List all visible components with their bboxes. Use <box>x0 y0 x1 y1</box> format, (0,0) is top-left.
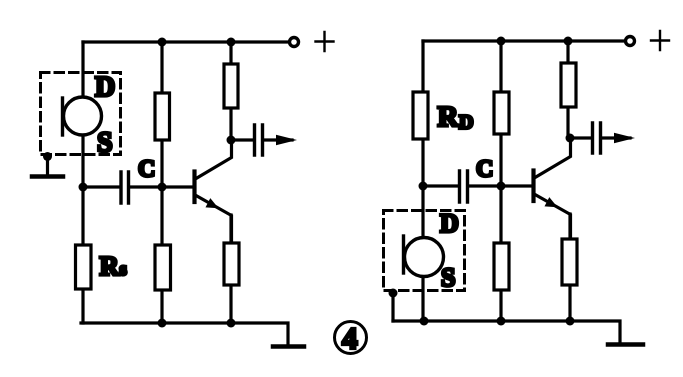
wire: right circuit top supply rail <box>423 39 624 42</box>
wire: mic case down to ground <box>46 157 49 175</box>
wire: left collector branch upper <box>229 42 232 140</box>
Q2 collector lead <box>535 139 571 178</box>
electret microphone shield box (dashed, right) <box>384 211 465 291</box>
ground (left circuit) <box>273 344 304 349</box>
junction: mic case (right) <box>389 289 398 298</box>
wire: supply rail down to mic drain <box>81 42 84 187</box>
junction dot bottom (divider) <box>158 319 167 328</box>
mic FET circle (left) <box>64 97 102 135</box>
svg-text:RD: RD <box>438 101 474 134</box>
wire: node to capacitor C (left) <box>83 185 119 188</box>
mic gate electrode bar (right) <box>402 236 405 273</box>
svg-text:C: C <box>138 157 155 183</box>
Q1 collector lead <box>196 141 232 179</box>
svg-text:D: D <box>440 209 459 238</box>
wire: emitter branch lower (left) <box>229 215 232 323</box>
output arrow (right) <box>614 133 635 144</box>
junction dot on right rail (collector) <box>564 37 573 46</box>
wire: node to transistor base (left) <box>162 185 193 188</box>
wire: node to capacitor C (right) <box>423 184 458 187</box>
junction dot bottom (divider, right) <box>497 317 506 326</box>
svg-text:S: S <box>441 263 455 292</box>
resistor: emitter (left) <box>224 243 239 285</box>
wire: node to transistor base (right) <box>501 184 532 187</box>
mic gate electrode bar (left) <box>61 98 64 135</box>
node: divider/base node (right) <box>497 182 506 191</box>
capacitor C (left coupling cap) <box>121 172 129 203</box>
capacitor C (right coupling cap) <box>460 171 468 202</box>
wire: right divider branch vertical <box>499 41 502 321</box>
wire: mic case down to bottom rail (right) <box>391 293 394 321</box>
wire: right RD branch vertical <box>421 41 424 186</box>
resistor: divider lower (right) <box>494 243 509 290</box>
wire: output lead with arrow (right) <box>602 136 630 139</box>
label: + polarity right <box>651 31 669 50</box>
transistor Q2 base bar <box>531 171 535 202</box>
wire: right circuit bottom rail to ground <box>393 321 620 342</box>
resistor: divider upper (right) <box>494 92 509 134</box>
label: + polarity left <box>316 32 334 51</box>
svg-text:4: 4 <box>342 321 358 356</box>
junction dot bottom (emitter) <box>227 319 236 328</box>
Q2 emitter arrow <box>545 197 558 207</box>
wire: emitter branch lower (right) <box>568 214 571 321</box>
node: divider/base node (left) <box>158 183 167 192</box>
resistor: collector load (right) <box>561 63 576 107</box>
wire: node down to mic drain (right) <box>421 186 424 321</box>
junction dot on rail (collector branch) <box>227 38 236 47</box>
svg-text:D: D <box>95 72 115 103</box>
wire: left circuit bottom rail to ground <box>81 323 288 344</box>
resistor: collector load (left) <box>224 64 238 108</box>
node: collector output node (right) <box>566 134 575 143</box>
node: collector output node (left) <box>227 136 236 145</box>
terminal: supply + output circle <box>290 38 299 47</box>
ground (mic case, left) <box>32 174 63 179</box>
output arrow (left) <box>276 135 297 146</box>
svg-text:Rs: Rs <box>100 251 127 281</box>
wire: capacitor to divider node (left) <box>130 185 162 188</box>
resistor Rs <box>76 245 92 289</box>
wire: right collector branch upper <box>566 41 569 138</box>
junction dot bottom (emitter, right) <box>566 317 575 326</box>
Q1 emitter arrow <box>206 198 219 208</box>
transistor Q1 base bar <box>192 172 196 203</box>
resistor: emitter (right) <box>562 239 577 285</box>
figure number circle 4 <box>335 322 367 354</box>
node: gate bias node (left) <box>79 183 88 192</box>
resistor: divider lower (left) <box>155 245 171 290</box>
svg-text:S: S <box>97 128 113 159</box>
ground (right circuit) <box>608 342 643 347</box>
wire: collector node to output cap (right) <box>570 136 591 139</box>
electret microphone shield box (dashed, left) <box>41 73 121 155</box>
wire: left divider branch vertical <box>160 42 163 323</box>
junction dot on rail (divider) <box>158 38 167 47</box>
output capacitor (left) <box>255 125 263 155</box>
wire: collector node to output cap (left) <box>231 138 253 141</box>
wire: left circuit top supply rail <box>83 40 288 43</box>
Q2 emitter lead <box>535 195 571 244</box>
output capacitor (right) <box>593 123 601 153</box>
Q1 emitter lead <box>196 196 232 245</box>
junction: mic case to ground (left) <box>43 152 52 161</box>
terminal: supply + output circle (right) <box>626 37 635 46</box>
wire: Rs branch vertical <box>81 187 84 323</box>
resistor RD <box>413 92 428 139</box>
junction dot on right rail (divider) <box>497 37 506 46</box>
svg-text:C: C <box>476 157 493 183</box>
resistor: divider upper (left) <box>155 93 170 140</box>
wire: capacitor to divider node (right) <box>469 184 501 187</box>
mic FET circle (right) <box>405 238 444 277</box>
wire: output lead with arrow (left) <box>264 138 292 141</box>
junction dot bottom (mic, right) <box>420 317 429 326</box>
node: gate bias node (right) <box>419 182 428 191</box>
